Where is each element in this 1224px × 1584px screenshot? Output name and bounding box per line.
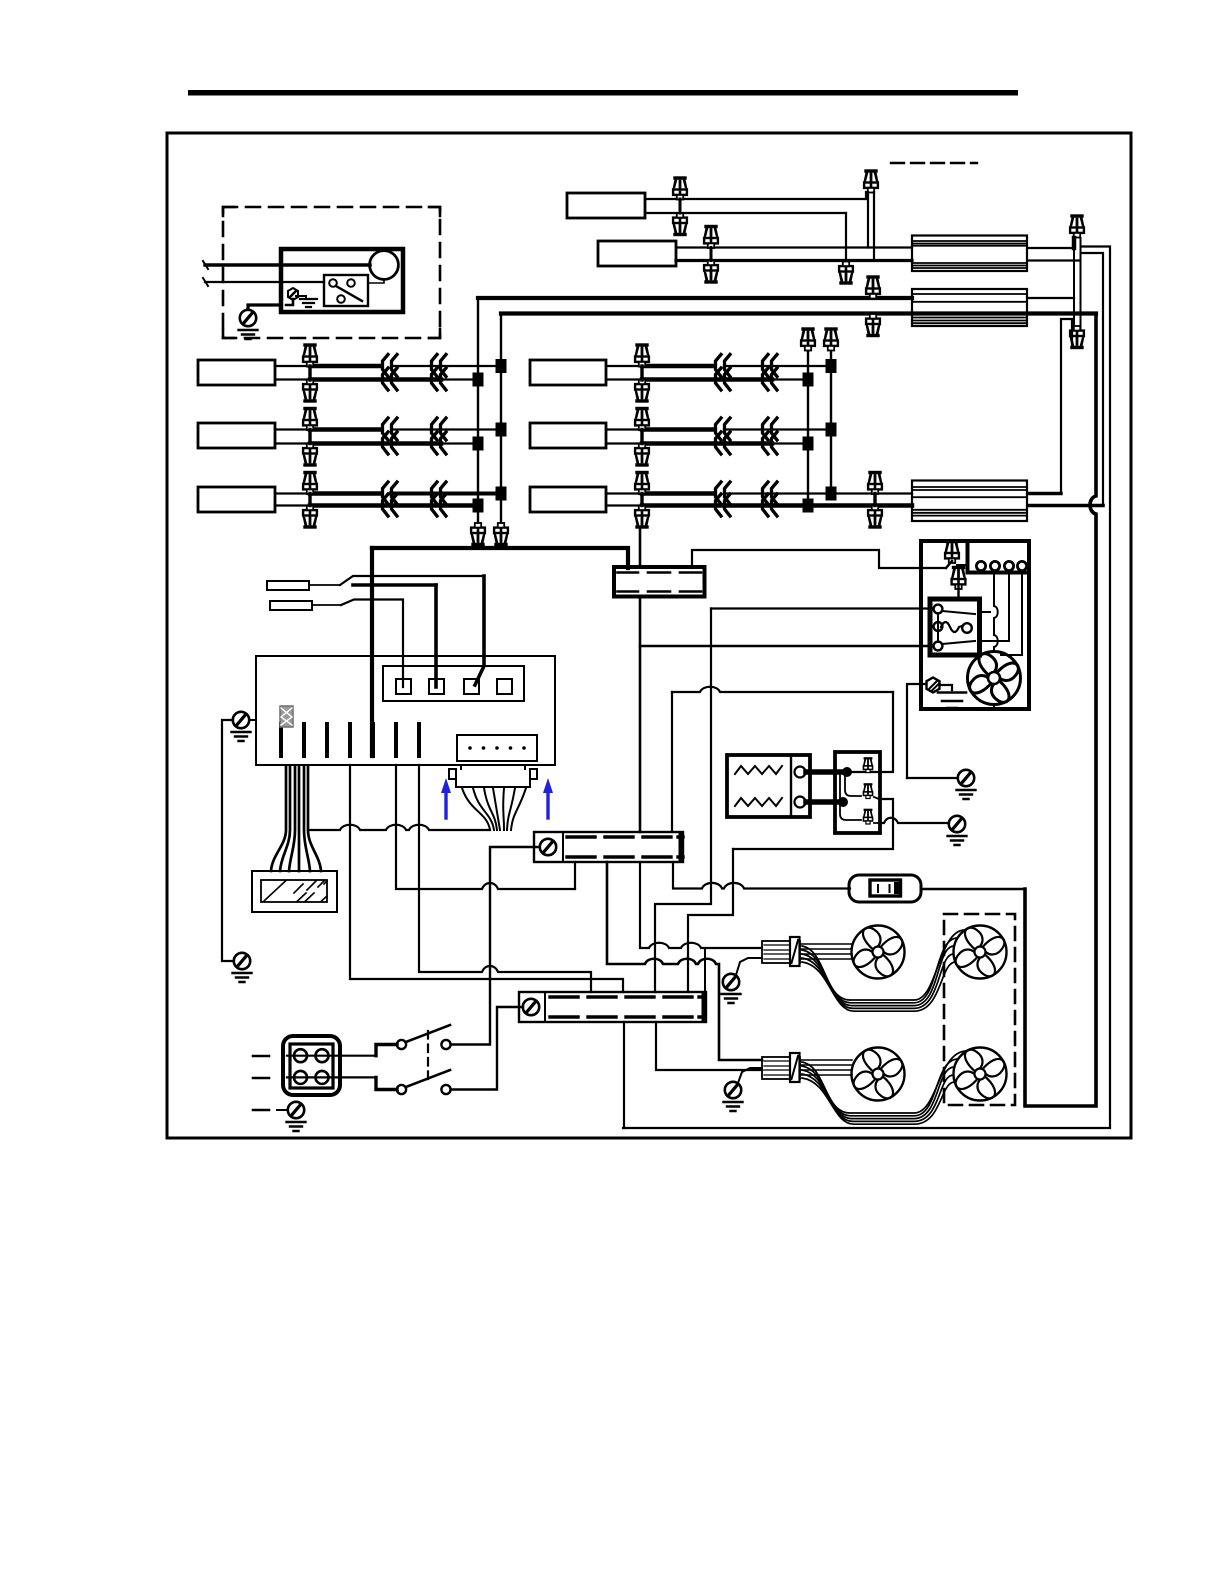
wire bbox=[679, 199, 682, 213]
terminal bbox=[934, 642, 943, 651]
bullet connector (up) bbox=[863, 810, 872, 824]
wire bbox=[310, 377, 441, 382]
bullet connector (up) bbox=[635, 409, 649, 431]
harness break chevron bbox=[716, 368, 731, 390]
outline bbox=[790, 937, 800, 966]
wire bbox=[642, 441, 772, 446]
terminal bbox=[294, 1071, 307, 1084]
wire bbox=[203, 261, 208, 286]
bullet connector (up) bbox=[863, 784, 872, 798]
wire bbox=[792, 1056, 799, 1079]
ground bbox=[957, 790, 976, 799]
wire bbox=[692, 550, 946, 568]
wire bbox=[1080, 238, 1082, 330]
wire bbox=[298, 766, 301, 871]
wire bbox=[907, 777, 958, 779]
thick 313.5 continues (drawn above) down at 1096 bbox=[1025, 314, 1096, 1107]
wire bbox=[391, 365, 501, 367]
wire bbox=[340, 576, 484, 585]
wire bbox=[802, 938, 958, 1003]
junction node bbox=[473, 373, 484, 387]
ground screw bbox=[723, 974, 739, 990]
outline bbox=[261, 880, 327, 902]
wire bbox=[710, 248, 713, 261]
wire bbox=[792, 940, 799, 963]
wire bbox=[606, 428, 642, 430]
wire bbox=[449, 769, 537, 779]
wire bbox=[302, 724, 306, 756]
harness break chevron bbox=[432, 418, 447, 440]
wire bbox=[937, 613, 939, 642]
harness break chevron bbox=[383, 432, 398, 454]
wire bbox=[873, 494, 876, 506]
hex ground screw inside box bbox=[288, 288, 298, 300]
wire bbox=[348, 724, 352, 756]
terminal bbox=[482, 746, 486, 750]
wire bbox=[275, 378, 310, 380]
lamp assembly row 1 bbox=[198, 360, 275, 385]
wire bbox=[502, 788, 505, 830]
wire bbox=[473, 788, 494, 830]
wire bbox=[546, 792, 549, 818]
ground bbox=[239, 330, 258, 339]
fan motor bbox=[954, 926, 1007, 979]
wire bbox=[912, 318, 1027, 324]
bullet connector (up) bbox=[673, 178, 687, 200]
wire bbox=[676, 246, 912, 248]
wire bbox=[280, 766, 290, 871]
bullet connector (down) bbox=[471, 523, 485, 545]
horizontal with hops to conn2 bbox=[308, 825, 490, 830]
wire bbox=[376, 1045, 397, 1056]
wire bbox=[1028, 259, 1079, 261]
wire bbox=[724, 492, 912, 494]
bullet connector (up) bbox=[303, 409, 317, 431]
fan motor bbox=[852, 926, 905, 979]
thermostat connector box bbox=[835, 752, 880, 833]
wire bbox=[396, 765, 575, 889]
ground screw bbox=[234, 953, 250, 969]
power cord wires bbox=[205, 263, 281, 266]
wire bbox=[929, 681, 940, 691]
wire bbox=[942, 611, 975, 614]
ground bbox=[722, 994, 741, 1003]
ground bbox=[948, 836, 967, 845]
harness break chevron bbox=[716, 494, 731, 516]
wire bbox=[802, 1059, 958, 1116]
wire bbox=[774, 378, 808, 380]
wire bbox=[391, 428, 501, 430]
interior light bbox=[370, 251, 399, 280]
wire bbox=[790, 755, 792, 817]
wire bbox=[419, 765, 591, 992]
terminal bbox=[294, 1049, 307, 1062]
bullet connector (up) bbox=[945, 542, 959, 564]
wire bbox=[544, 992, 546, 1022]
wire bbox=[300, 299, 317, 307]
wire bbox=[308, 766, 321, 871]
thermostat right wires bbox=[733, 799, 893, 849]
wire bbox=[878, 885, 890, 892]
terminal bbox=[468, 746, 472, 750]
bullet connector (up) bbox=[303, 473, 317, 495]
wire bbox=[205, 281, 324, 283]
terminal bbox=[316, 1071, 329, 1084]
wire bbox=[806, 769, 847, 775]
wire bbox=[507, 788, 515, 830]
bullet connector (down) bbox=[635, 444, 649, 466]
wire bbox=[550, 995, 704, 998]
outline bbox=[464, 679, 479, 694]
terminal bbox=[1004, 561, 1013, 570]
wire bbox=[275, 492, 310, 494]
wire bbox=[309, 584, 340, 586]
wire bbox=[606, 365, 642, 367]
wire bbox=[275, 365, 310, 367]
wire bbox=[475, 576, 484, 685]
wire bbox=[802, 1067, 954, 1119]
box A bottom wire drop to down connector bbox=[845, 213, 847, 261]
bullet connector (up) bbox=[824, 329, 838, 351]
inline connector block 1 bbox=[614, 567, 705, 597]
outline bbox=[383, 666, 524, 701]
wire bbox=[606, 504, 642, 506]
harness break chevron bbox=[763, 482, 778, 504]
wire switch to lamp bbox=[368, 279, 384, 283]
board terminal pins bbox=[279, 724, 283, 756]
bullet connector (down) bbox=[303, 506, 317, 528]
junction node bbox=[496, 423, 507, 437]
wire bbox=[736, 958, 762, 975]
wire bbox=[543, 778, 553, 793]
bullet connector (down) bbox=[494, 523, 508, 545]
terminal bbox=[441, 1085, 450, 1094]
harness break chevron bbox=[383, 368, 398, 390]
outline bbox=[870, 880, 901, 896]
harness1 right wires bbox=[1028, 247, 1072, 249]
wire bbox=[308, 494, 311, 506]
terminal bbox=[962, 623, 972, 633]
wire bbox=[774, 442, 808, 444]
wire bbox=[946, 561, 952, 568]
legend dashed line top right bbox=[891, 162, 977, 164]
harness break chevron bbox=[716, 355, 731, 377]
wire bbox=[310, 503, 478, 508]
wire bbox=[623, 1022, 625, 1128]
outer border bbox=[167, 133, 1131, 1138]
harness2 right: thin 298 bbox=[1028, 297, 1074, 299]
dashed enclosure bbox=[223, 207, 440, 338]
harness break chevron bbox=[383, 355, 398, 377]
wire bbox=[676, 259, 912, 262]
connector at 871 with pair down bbox=[864, 171, 878, 193]
wire bbox=[912, 487, 1027, 497]
harness break chevron bbox=[763, 432, 778, 454]
wire bbox=[304, 766, 310, 871]
wire bbox=[874, 772, 893, 823]
wire bbox=[845, 774, 861, 796]
harness break chevron bbox=[432, 494, 447, 516]
junction node bbox=[803, 373, 814, 387]
wire bbox=[441, 778, 451, 793]
wire bbox=[912, 510, 1027, 516]
wire bbox=[640, 494, 643, 506]
wire bbox=[735, 798, 782, 806]
wire bbox=[370, 548, 374, 756]
harness break chevron bbox=[763, 355, 778, 377]
middle buses bbox=[807, 350, 809, 506]
wire bbox=[550, 1015, 704, 1018]
lamp assembly row 2 bbox=[530, 423, 606, 448]
terminal bbox=[316, 1049, 329, 1062]
wire bbox=[800, 944, 852, 959]
wire bbox=[406, 1070, 450, 1087]
wire bbox=[312, 604, 341, 606]
wire bbox=[607, 862, 762, 1060]
terminal bbox=[976, 561, 985, 570]
terminal bbox=[838, 797, 848, 807]
wire bbox=[764, 945, 798, 959]
terminal bbox=[795, 797, 806, 808]
wire bbox=[802, 1078, 955, 1124]
harness break chevron bbox=[763, 418, 778, 440]
terminal bbox=[441, 1040, 450, 1049]
junction node bbox=[473, 499, 484, 513]
bullet connector (up) bbox=[863, 758, 872, 772]
wire bbox=[738, 1068, 762, 1083]
wire bbox=[1082, 253, 1103, 506]
bullet connector (down) bbox=[635, 506, 649, 528]
terminal bbox=[990, 561, 999, 570]
wire bbox=[567, 855, 683, 858]
wire bbox=[223, 207, 440, 338]
bullet connector (down) bbox=[866, 314, 880, 336]
wire bbox=[277, 1109, 288, 1111]
ground bbox=[287, 1122, 306, 1131]
bullet connector (down) bbox=[704, 261, 718, 283]
wire bbox=[672, 687, 893, 692]
wire bbox=[264, 881, 327, 902]
wire bbox=[511, 788, 526, 830]
wire bbox=[289, 766, 295, 871]
terminal bbox=[509, 746, 513, 750]
junction node bbox=[826, 359, 837, 373]
wire bbox=[806, 799, 843, 805]
fan motor bbox=[852, 1048, 905, 1101]
terminal bbox=[329, 279, 337, 287]
wire bbox=[310, 427, 380, 432]
wire right of connector to x=1110 bbox=[623, 247, 1110, 1129]
wire bbox=[308, 430, 311, 444]
bullet connector (down) bbox=[673, 213, 687, 235]
outline bbox=[894, 882, 899, 894]
wire bbox=[912, 241, 1027, 246]
terminal bbox=[1017, 561, 1026, 570]
board left ground bbox=[249, 719, 256, 721]
outline bbox=[702, 992, 707, 1022]
outline bbox=[270, 601, 312, 610]
junction node bbox=[496, 487, 507, 501]
wire bbox=[308, 366, 311, 380]
wire bbox=[606, 442, 642, 444]
harness break chevron bbox=[383, 494, 398, 516]
wire bbox=[941, 622, 962, 632]
wire bbox=[484, 788, 497, 830]
wire bbox=[830, 350, 832, 494]
terminal bbox=[934, 622, 943, 631]
wire bbox=[371, 724, 375, 756]
ground screw bbox=[958, 770, 974, 786]
wire bbox=[376, 1077, 397, 1089]
bullet connector (up) bbox=[635, 345, 649, 367]
wire bbox=[840, 774, 861, 820]
wire bbox=[281, 708, 292, 725]
junction node bbox=[826, 423, 837, 437]
board pin header J1 bbox=[457, 735, 537, 761]
wire bbox=[849, 692, 893, 772]
wire bbox=[275, 442, 310, 444]
wire bbox=[296, 296, 306, 299]
ground screw bbox=[523, 999, 539, 1015]
wire bbox=[1061, 319, 1072, 494]
wire bbox=[642, 364, 712, 369]
wire bbox=[275, 504, 310, 506]
fuse component F1 bbox=[280, 706, 293, 727]
wire bbox=[501, 311, 1096, 315]
wire bbox=[865, 192, 867, 199]
wire bbox=[724, 428, 831, 430]
bullet connector (down) bbox=[868, 506, 882, 528]
bus top corners to harness2 bbox=[478, 296, 912, 300]
junction node bbox=[473, 437, 484, 451]
bullet connector (up) bbox=[952, 568, 966, 590]
title rule bbox=[188, 90, 1018, 96]
wire bbox=[286, 299, 293, 305]
wire bbox=[645, 212, 846, 214]
harness break chevron bbox=[432, 482, 447, 504]
outline bbox=[679, 832, 684, 862]
wire bbox=[800, 1060, 852, 1075]
ground screw bbox=[725, 1082, 741, 1098]
wire bbox=[310, 364, 380, 369]
bullet connector (up) bbox=[868, 473, 882, 495]
bullet connector (down) bbox=[303, 444, 317, 466]
ground wire out of box bbox=[248, 305, 281, 310]
wire bbox=[222, 720, 234, 961]
junction node bbox=[803, 499, 814, 513]
wire bbox=[907, 684, 921, 778]
dashed fan box bbox=[944, 914, 1015, 1105]
wire bbox=[642, 377, 772, 382]
wire bbox=[310, 441, 441, 446]
wire bbox=[336, 286, 362, 301]
outline bbox=[790, 1053, 800, 1082]
wire bbox=[938, 693, 966, 709]
wire bbox=[735, 766, 782, 774]
wire bbox=[341, 600, 403, 688]
wire bbox=[451, 1007, 524, 1090]
wire bbox=[461, 765, 525, 769]
wire bbox=[671, 692, 673, 832]
wire bbox=[921, 684, 952, 690]
wire bbox=[443, 442, 478, 444]
ground screw bbox=[949, 816, 965, 832]
bullet connector (down) bbox=[1070, 326, 1084, 348]
bullet connector (up) bbox=[866, 277, 880, 299]
wire bbox=[353, 583, 436, 587]
wire bbox=[574, 862, 576, 889]
ground bbox=[233, 973, 252, 982]
wire bbox=[1072, 238, 1077, 248]
junction node bbox=[803, 437, 814, 451]
wire bbox=[642, 427, 712, 432]
terminal bbox=[337, 295, 345, 303]
wire bbox=[942, 641, 975, 644]
wire bbox=[993, 705, 995, 710]
wire bbox=[980, 572, 1010, 641]
wire bbox=[406, 1025, 450, 1042]
junction box bbox=[281, 249, 403, 312]
wire bbox=[394, 724, 398, 756]
wire bbox=[642, 491, 712, 496]
bullet connector (up) bbox=[635, 473, 649, 495]
bullet connector (down) bbox=[635, 380, 649, 402]
bullet connector (up) bbox=[704, 227, 718, 249]
wire bbox=[980, 611, 991, 613]
outline bbox=[396, 679, 411, 694]
wires from terminals down bbox=[994, 572, 998, 651]
condenser fan bbox=[968, 652, 1021, 705]
outline bbox=[429, 679, 444, 694]
wire bbox=[310, 491, 380, 496]
ground screw bbox=[240, 310, 256, 326]
wire bbox=[275, 428, 310, 430]
wire bbox=[802, 1074, 954, 1121]
wire bbox=[391, 492, 501, 496]
harness break chevron bbox=[763, 494, 778, 516]
wire bbox=[567, 835, 683, 838]
wire bbox=[443, 378, 478, 380]
harness break chevron bbox=[383, 418, 398, 440]
left bus lines bbox=[477, 298, 479, 523]
harness break chevron bbox=[432, 355, 447, 377]
ground screw bbox=[288, 1102, 304, 1118]
harness break chevron bbox=[763, 368, 778, 390]
wire bbox=[640, 366, 643, 380]
compressor ground bbox=[927, 678, 940, 693]
wire bbox=[1028, 504, 1103, 508]
connector cell dashes bbox=[618, 571, 702, 574]
junction node bbox=[496, 359, 507, 373]
terminal bbox=[795, 767, 806, 778]
wire bbox=[287, 1056, 376, 1078]
terminal bbox=[934, 605, 943, 614]
wire bbox=[290, 291, 296, 297]
wire bbox=[325, 724, 329, 756]
lamp assembly row 3 bbox=[530, 487, 606, 512]
wire bbox=[656, 1022, 762, 1070]
lamp assembly row 3 bbox=[198, 487, 275, 512]
wire bbox=[912, 294, 1027, 302]
harness break chevron bbox=[432, 432, 447, 454]
ground screw bbox=[540, 839, 556, 855]
outline bbox=[497, 679, 512, 694]
wire bbox=[867, 192, 869, 248]
harness break chevron bbox=[716, 482, 731, 504]
outline bbox=[598, 241, 676, 266]
wire bbox=[802, 946, 954, 1006]
wire bbox=[500, 314, 502, 524]
